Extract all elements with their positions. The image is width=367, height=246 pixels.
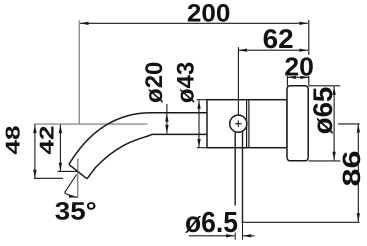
svg-text:62: 62 xyxy=(263,24,294,54)
dimension ø43 line xyxy=(198,100,200,147)
svg-text:35°: 35° xyxy=(55,197,97,225)
dimension 20 line xyxy=(287,76,308,78)
dimension ø6.5 label halo xyxy=(187,206,237,233)
angle 35 vertical reference xyxy=(77,159,79,198)
dimension ø20 line xyxy=(166,104,168,133)
wire flange top extension xyxy=(309,85,341,87)
handle cross xyxy=(235,120,242,127)
svg-text:ø20: ø20 xyxy=(141,62,168,103)
dimension 86 line xyxy=(357,124,359,222)
wire 86 top extension xyxy=(338,123,360,125)
svg-text:20: 20 xyxy=(284,51,314,81)
wire handle-center extension line xyxy=(237,47,239,120)
wire flange bottom extension xyxy=(309,160,341,162)
joint line right xyxy=(248,100,250,148)
spout aerator face xyxy=(69,164,87,178)
wire 86 bottom extension xyxy=(242,221,360,223)
spout tube bottom edge xyxy=(87,134,207,178)
centerline horizontal (spout axis) xyxy=(34,123,148,125)
dimension ø6.5 leader right xyxy=(243,235,255,237)
body rectangle xyxy=(207,100,287,148)
wall flange rectangle xyxy=(287,86,308,161)
wire 42 bottom extension xyxy=(58,170,79,172)
dimension 62 line xyxy=(238,49,308,51)
angle 35 slant line xyxy=(65,175,77,193)
spout tube top edge xyxy=(69,113,207,165)
svg-text:ø43: ø43 xyxy=(173,62,200,103)
dimension 20 label halo xyxy=(286,55,313,76)
handle circle xyxy=(230,115,247,132)
svg-text:200: 200 xyxy=(187,0,231,28)
centerline vertical (spout tip reference, 200 left extension) xyxy=(78,20,80,124)
pipe right extension xyxy=(242,222,244,240)
supply pipe left edge xyxy=(234,131,236,222)
svg-text:42: 42 xyxy=(36,126,58,155)
dimension ø6.5 leader left xyxy=(189,235,235,237)
dimension 48 line xyxy=(34,125,36,179)
joint line left xyxy=(246,100,248,148)
wire body bottom extension xyxy=(197,147,207,149)
angle 35 arc xyxy=(65,193,78,198)
svg-text:86: 86 xyxy=(338,151,366,187)
svg-text:ø65: ø65 xyxy=(308,87,338,135)
dimension 42 line xyxy=(59,125,61,172)
supply pipe right edge xyxy=(242,131,244,222)
wire flange-left extension line xyxy=(286,74,288,86)
dimension ø65 line xyxy=(333,86,335,160)
wire wall extension line xyxy=(308,20,310,86)
svg-text:ø6.5: ø6.5 xyxy=(185,207,238,239)
wire 48 bottom extension xyxy=(34,177,63,179)
pipe left extension xyxy=(234,222,236,240)
dimension 200 line xyxy=(80,22,308,24)
svg-text:48: 48 xyxy=(3,126,25,155)
wire body top extension xyxy=(197,99,207,101)
